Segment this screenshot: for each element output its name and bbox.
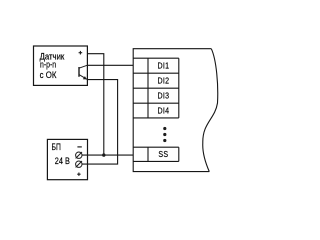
- svg-text:БП: БП: [52, 142, 61, 152]
- svg-text:n-p-n: n-p-n: [40, 58, 56, 69]
- svg-text:24 В: 24 В: [55, 155, 70, 166]
- svg-text:DI4: DI4: [157, 106, 169, 116]
- svg-text:DI1: DI1: [157, 61, 169, 71]
- svg-text:DI2: DI2: [157, 76, 169, 86]
- svg-text:с ОК: с ОК: [40, 69, 58, 80]
- svg-text:SS: SS: [158, 150, 168, 160]
- svg-text:DI3: DI3: [157, 91, 169, 101]
